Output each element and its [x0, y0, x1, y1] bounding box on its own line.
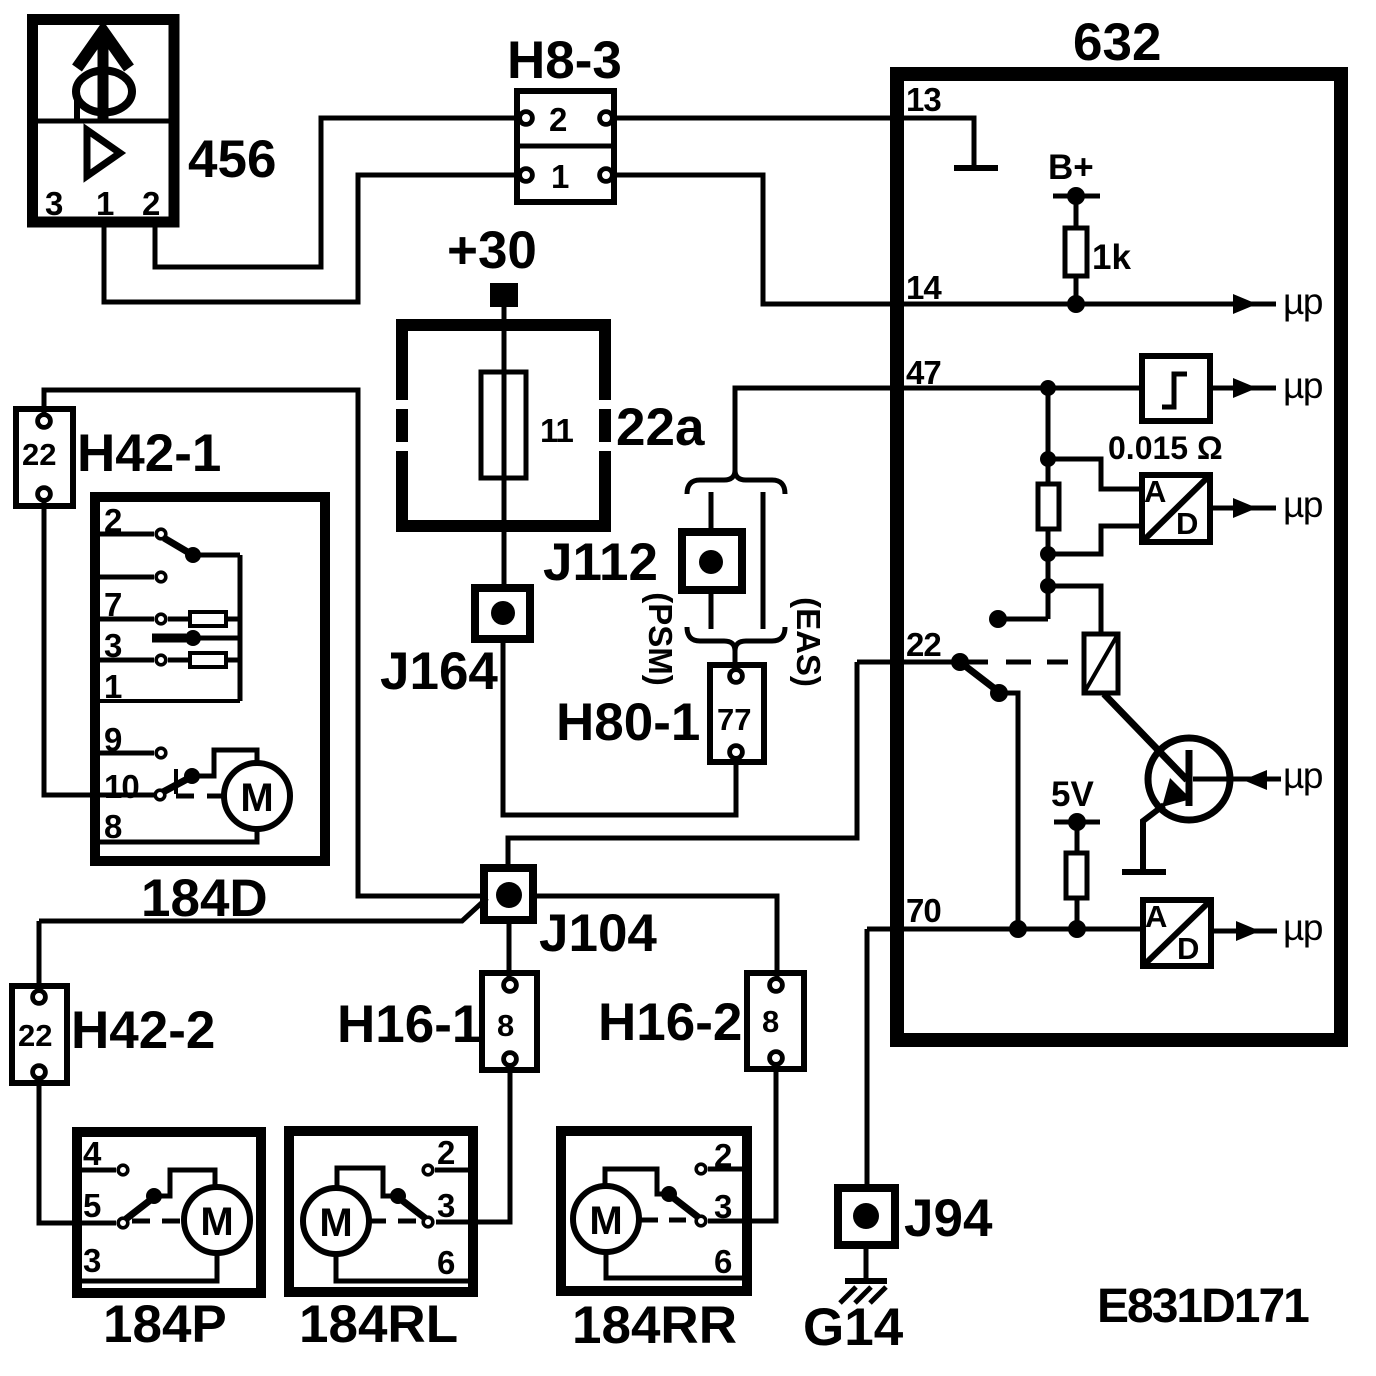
connector H16-1	[482, 973, 537, 1070]
connector H16-2	[747, 973, 804, 1069]
svg-text:77: 77	[717, 702, 751, 737]
ground bar at pin 13	[954, 165, 998, 171]
switch arm end dot	[990, 684, 1008, 702]
motor unit 184D (sunroof motor)	[95, 497, 325, 861]
svg-text:H42-1: H42-1	[77, 424, 221, 483]
svg-text:E831D171: E831D171	[1097, 1280, 1309, 1333]
184RL pin 3 contact	[423, 1217, 433, 1227]
184D pin 1 row with resistor	[100, 653, 240, 667]
relay coil	[1084, 634, 1118, 693]
svg-text:µp: µp	[1283, 281, 1323, 322]
184RR pin 2 row	[696, 1164, 742, 1174]
svg-text:8: 8	[762, 1004, 779, 1039]
wire +30 through fuse to J164	[502, 306, 507, 588]
svg-text:H8-3: H8-3	[507, 31, 622, 90]
svg-text:2: 2	[549, 101, 567, 138]
svg-text:H42-2: H42-2	[71, 1001, 215, 1060]
184RR pin 3 contact	[696, 1216, 706, 1226]
184D pin 2 row	[100, 529, 166, 539]
184D internal rail	[100, 555, 240, 701]
motor unit 184P	[77, 1132, 261, 1293]
arrow to microprocessor pin14	[1240, 302, 1276, 307]
184D dashed link to motor	[176, 794, 225, 799]
184D pin 10 contact	[155, 790, 165, 800]
svg-text:(PSM): (PSM)	[642, 592, 679, 686]
PSM branch wire lower	[709, 590, 714, 629]
A/D converter U1	[1142, 474, 1210, 542]
wire H42-2 upper	[37, 921, 42, 990]
svg-text:J94: J94	[904, 1189, 993, 1248]
svg-text:M: M	[240, 776, 273, 820]
wire J94 to ground G14	[864, 1245, 869, 1281]
fuse holder box 22a (dashed)	[396, 319, 611, 532]
svg-text:H16-1: H16-1	[337, 995, 481, 1054]
svg-text:J164: J164	[380, 642, 498, 701]
wire H42-2 to J104 with jog	[39, 898, 487, 921]
wire H8-3 pin2 to 632 pin13	[613, 118, 974, 166]
184RL pin 2 row	[423, 1165, 468, 1175]
svg-text:1: 1	[96, 185, 114, 222]
svg-text:3: 3	[437, 1187, 455, 1224]
svg-text:M: M	[589, 1199, 622, 1243]
svg-text:10: 10	[104, 768, 139, 805]
svg-text:A: A	[1144, 474, 1166, 509]
junction dot pin14/1k	[1067, 295, 1085, 313]
svg-text:5: 5	[83, 1187, 101, 1224]
184P pin 4 row	[82, 1165, 128, 1175]
connector H80-1	[710, 665, 764, 762]
switch arm pin22	[960, 662, 999, 692]
184RR dashed link to motor	[641, 1218, 692, 1223]
wire rail to A/D converter input A	[1048, 459, 1142, 489]
184RR motor return row	[606, 1252, 742, 1278]
wire H42-1 pin22 to J104 vertical	[44, 390, 486, 896]
wire J104 to H16-1	[507, 920, 512, 977]
connector H42-1	[16, 409, 73, 506]
184D switch arm lower	[163, 768, 200, 792]
junction dot pin70/5V	[1068, 920, 1086, 938]
wire 1k to pin14 line	[1074, 276, 1079, 304]
svg-text:184P: 184P	[103, 1295, 227, 1354]
wire fixed contact to rail	[998, 617, 1048, 622]
wire pin47 vertical to top brace	[687, 470, 785, 494]
resistor 0.015 ohm	[1038, 484, 1059, 529]
wire 632 pin70 to J94	[865, 929, 870, 1192]
svg-text:4: 4	[83, 1135, 102, 1172]
ground bar transistor emitter	[1122, 869, 1166, 875]
svg-text:1k: 1k	[1092, 238, 1131, 277]
wire H16-1 to 184RL pin 3	[436, 1066, 510, 1222]
svg-text:6: 6	[437, 1244, 455, 1281]
transistor Q1	[1143, 738, 1230, 869]
svg-text:J112: J112	[543, 533, 658, 592]
motor unit 184RR	[561, 1131, 747, 1291]
svg-text:A: A	[1145, 899, 1167, 934]
junction J104	[484, 868, 533, 920]
184D pin 9 row	[100, 748, 166, 758]
svg-text:3: 3	[714, 1188, 732, 1225]
svg-text:632: 632	[1073, 13, 1161, 72]
junction dot rail to relay	[1040, 578, 1056, 594]
svg-text:D: D	[1177, 931, 1199, 966]
5V terminal	[1054, 813, 1100, 855]
junction dot 47 line	[1040, 380, 1056, 396]
arrow to microprocessor pin70 row	[1211, 929, 1256, 934]
184P dashed link to motor	[132, 1219, 184, 1224]
base line from microprocessor	[1193, 777, 1281, 782]
svg-text:M: M	[319, 1201, 352, 1245]
wire 456 pin1 to H8-3 pin1	[104, 175, 518, 302]
184RL switch arm	[390, 1188, 425, 1218]
184RR wire arm to motor	[605, 1169, 669, 1194]
A/D converter U2	[1143, 899, 1211, 966]
wire pin 70 line	[867, 927, 1142, 932]
dashed mechanical link pin22 switch to relay	[1006, 660, 1068, 665]
junction dot pin70/switch	[1009, 920, 1027, 938]
svg-text:22a: 22a	[616, 398, 705, 457]
wire switch arm to pin70 line	[999, 693, 1018, 929]
svg-text:G14: G14	[803, 1298, 904, 1357]
184P motor return row	[82, 1253, 217, 1281]
184D pin 8 row motor return	[100, 829, 257, 842]
arrow from microprocessor to base	[1243, 770, 1267, 790]
184P motor M	[184, 1187, 250, 1253]
svg-text:2: 2	[142, 185, 160, 222]
connector H42-2	[12, 986, 67, 1083]
wire resistor to pin70 line	[1075, 898, 1080, 929]
wire H42-1 to 184D pin 10	[44, 501, 154, 795]
comparator / threshold box	[1142, 356, 1210, 421]
wire 632 pin22 entry	[857, 660, 988, 665]
wire pin22 to J104	[508, 662, 857, 868]
wire pin 47 line from brace to comparator	[735, 388, 1142, 472]
184RL dashed link to motor	[368, 1219, 420, 1224]
svg-text:70: 70	[906, 892, 941, 929]
184RR switch arm	[661, 1186, 698, 1217]
184P pin 5 contact	[118, 1218, 128, 1228]
184D motor M	[224, 763, 290, 829]
resistor 1k	[1065, 228, 1087, 276]
ECU box 632	[897, 74, 1341, 1040]
B+ terminal	[1053, 187, 1100, 230]
svg-text:+30: +30	[447, 221, 537, 280]
svg-text:1: 1	[551, 158, 569, 195]
svg-text:47: 47	[906, 354, 941, 391]
wire H8-3 pin1 to 632 pin14 and microprocessor	[613, 175, 1253, 304]
184D detent tick	[174, 769, 178, 794]
wire J104 to H16-2	[533, 896, 777, 977]
svg-text:H16-2: H16-2	[598, 993, 742, 1052]
fuse 11	[481, 372, 526, 478]
wire J164 to H80-1 pin 77	[503, 639, 736, 815]
junction J94	[838, 1188, 895, 1245]
wire brace to H80-1 pin77	[733, 649, 738, 666]
arrow to microprocessor pin47 row	[1210, 386, 1253, 391]
wire rail to relay coil	[1048, 586, 1101, 634]
motor unit 184RL	[289, 1131, 473, 1292]
svg-text:µp: µp	[1283, 484, 1323, 525]
184RL wire arm to motor	[337, 1168, 398, 1196]
EAS branch wire	[761, 492, 766, 629]
svg-text:11: 11	[540, 412, 574, 449]
wire rail to A/D converter input D	[1048, 526, 1142, 554]
PSM branch wire	[709, 492, 714, 534]
184D wire arm to motor	[192, 750, 257, 776]
svg-text:6: 6	[714, 1243, 732, 1280]
switch unit 456 (sunroof switch)	[33, 20, 175, 223]
184D spare contact row	[100, 572, 166, 582]
svg-text:184RL: 184RL	[299, 1295, 458, 1354]
svg-text:456: 456	[188, 130, 276, 189]
184P wire arm to motor	[154, 1170, 215, 1196]
svg-text:D: D	[1176, 506, 1198, 541]
junction dot rail upper	[1040, 451, 1056, 467]
svg-text:0.015 Ω: 0.015 Ω	[1108, 430, 1223, 466]
svg-text:B+: B+	[1048, 148, 1094, 187]
junction dot rail lower	[1040, 546, 1056, 562]
junction J164	[475, 588, 530, 639]
svg-text:22: 22	[22, 437, 56, 472]
internal sense rail	[1046, 388, 1051, 619]
svg-text:22: 22	[906, 626, 941, 663]
wire H42-2 to 184P pin 5	[39, 1079, 116, 1223]
svg-text:(EAS): (EAS)	[790, 597, 827, 687]
svg-text:22: 22	[18, 1018, 52, 1053]
svg-text:3: 3	[83, 1242, 101, 1279]
svg-text:J104: J104	[539, 904, 657, 963]
svg-text:3: 3	[45, 185, 63, 222]
svg-text:13: 13	[906, 81, 941, 118]
184RL motor return row	[336, 1254, 468, 1281]
svg-text:µp: µp	[1283, 907, 1323, 948]
svg-text:8: 8	[104, 808, 122, 845]
svg-text:14: 14	[906, 269, 942, 306]
svg-text:5V: 5V	[1051, 775, 1094, 814]
pull-up resistor at pin 70	[1066, 853, 1087, 898]
svg-text:µp: µp	[1283, 365, 1323, 406]
ground G14	[840, 1281, 887, 1303]
svg-text:H80-1: H80-1	[556, 693, 700, 752]
184RR motor M	[573, 1186, 639, 1252]
184RL motor M	[303, 1188, 369, 1254]
wire 456 pin2 to H8-3 pin2	[155, 118, 518, 267]
bottom brace to H80-1	[687, 627, 785, 651]
switch fixed contact dot	[989, 610, 1007, 628]
svg-text:µp: µp	[1283, 755, 1323, 796]
+30 terminal square	[490, 283, 518, 307]
junction dot pin22 pivot	[951, 653, 969, 671]
svg-text:184RR: 184RR	[572, 1296, 737, 1355]
wire relay coil to transistor collector	[1104, 694, 1187, 780]
arrow to microprocessor A/D row	[1210, 506, 1253, 511]
184D switch arm upper	[164, 538, 240, 563]
184D pin 7 row with resistor	[100, 612, 240, 626]
wire H16-2 to 184RR pin 3	[708, 1065, 776, 1221]
184P switch arm	[126, 1188, 162, 1219]
connector H8-3	[517, 91, 614, 202]
junction J112	[682, 532, 742, 590]
184D wiper arm row 3	[152, 630, 240, 646]
svg-text:M: M	[200, 1200, 233, 1244]
svg-text:8: 8	[497, 1008, 514, 1043]
svg-text:2: 2	[437, 1134, 455, 1171]
